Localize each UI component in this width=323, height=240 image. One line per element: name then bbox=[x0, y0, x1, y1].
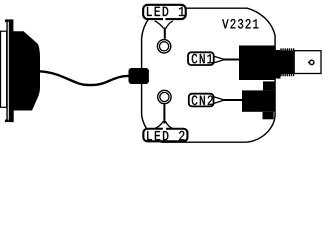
connector CN1 mating plug shell bbox=[294, 51, 321, 74]
connector P1 hood bbox=[9, 19, 40, 122]
callout LED 1 tail right wall bbox=[166, 21, 173, 29]
LED D1 (top) bbox=[157, 40, 170, 53]
callout LED 2 tail stub bbox=[163, 104, 165, 123]
device body outline bbox=[142, 8, 275, 142]
connector CN1 shaft bbox=[275, 50, 281, 79]
connector P1 face plate bbox=[1, 31, 7, 107]
connector CN1 body (BNC) bbox=[239, 46, 275, 81]
connector P1 hood top cap bbox=[5, 19, 9, 22]
connector P1 flange bar bbox=[6, 20, 7, 122]
callout LED 2 tail slot bbox=[163, 127, 166, 130]
connector CN1 plug pin bbox=[310, 60, 314, 64]
callout LED 1 text bbox=[147, 7, 185, 16]
callout LED 1 tail slot bbox=[163, 18, 166, 22]
callout CN1 wedge bbox=[213, 56, 225, 63]
connector CN1 plug pin tick bbox=[308, 61, 310, 63]
connector CN2 top tab bbox=[263, 81, 275, 90]
connector CN1 knurl teeth bottom bbox=[280, 74, 294, 76]
connector CN1 knurled nut bbox=[280, 51, 294, 75]
connector CN1 knurl teeth top bbox=[280, 48, 294, 50]
callout LED 1 tail stub bbox=[164, 28, 166, 39]
callout CN2 text bbox=[192, 96, 213, 106]
callout CN2 box bbox=[189, 94, 214, 107]
connector CN2 bottom tab bbox=[263, 112, 274, 120]
connector CN2 body bbox=[242, 90, 275, 111]
callout CN1 pointer line bbox=[213, 59, 240, 61]
callout CN1 box bbox=[188, 52, 214, 65]
callout CN2 pointer line bbox=[213, 99, 243, 101]
connector P1 hood bottom cap bbox=[5, 120, 9, 123]
callout CN2 wedge bbox=[213, 96, 225, 104]
cable bbox=[38, 71, 129, 85]
callout LED 2 tail left wall bbox=[155, 121, 163, 128]
callout LED 2 box bbox=[143, 129, 187, 142]
callout CN1 text bbox=[192, 54, 213, 64]
callout LED 1 tail left wall bbox=[155, 21, 164, 29]
LED D2 (bottom) bbox=[158, 90, 171, 103]
callout LED 2 text bbox=[147, 131, 184, 140]
callout LED 1 box bbox=[143, 5, 186, 19]
callout LED 2 tail right wall bbox=[165, 121, 172, 128]
label V2321 bbox=[222, 19, 258, 29]
cable strain relief plug bbox=[129, 68, 149, 84]
